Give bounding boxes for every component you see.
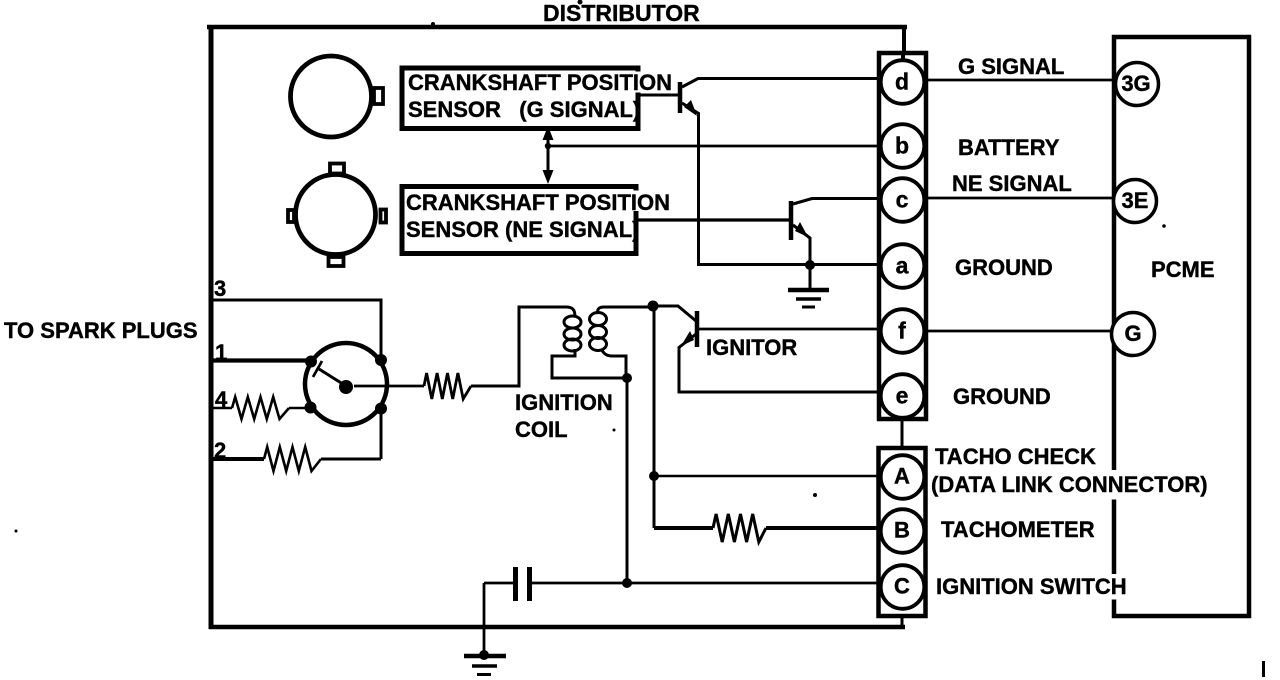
svg-text:NE SIGNAL: NE SIGNAL (952, 171, 1072, 196)
svg-text:SENSOR (NE SIGNAL): SENSOR (NE SIGNAL) (406, 217, 639, 242)
svg-text:CRANKSHAFT POSITION: CRANKSHAFT POSITION (406, 190, 670, 215)
svg-text:C: C (894, 574, 910, 599)
svg-text:d: d (895, 69, 909, 95)
svg-text:3G: 3G (1121, 71, 1150, 96)
svg-text:G SIGNAL: G SIGNAL (958, 54, 1064, 79)
svg-text:PCME: PCME (1151, 257, 1215, 282)
svg-text:IGNITOR: IGNITOR (706, 335, 797, 360)
svg-text:IGNITION SWITCH: IGNITION SWITCH (936, 574, 1127, 599)
svg-text:e: e (896, 383, 909, 409)
svg-text:IGNITION: IGNITION (515, 390, 613, 415)
svg-text:GROUND: GROUND (953, 384, 1051, 409)
svg-text:TACHO CHECK: TACHO CHECK (935, 444, 1096, 469)
svg-text:CRANKSHAFT POSITION: CRANKSHAFT POSITION (408, 70, 672, 95)
svg-text:f: f (898, 318, 906, 344)
svg-text:G: G (1124, 321, 1141, 346)
svg-text:COIL: COIL (515, 417, 568, 442)
svg-text:3E: 3E (1122, 188, 1149, 213)
svg-text:TACHOMETER: TACHOMETER (941, 517, 1095, 542)
svg-text:SENSOR (G SIGNAL): SENSOR (G SIGNAL) (408, 97, 640, 122)
svg-text:a: a (896, 253, 909, 279)
svg-text:TO SPARK PLUGS: TO SPARK PLUGS (4, 318, 198, 343)
svg-text:3: 3 (214, 276, 226, 301)
svg-text:c: c (896, 187, 909, 213)
svg-text:BATTERY: BATTERY (958, 135, 1060, 160)
svg-text:B: B (894, 518, 910, 543)
svg-text:DISTRIBUTOR: DISTRIBUTOR (543, 0, 700, 26)
svg-text:(DATA LINK CONNECTOR): (DATA LINK CONNECTOR) (931, 472, 1208, 497)
svg-text:b: b (895, 133, 909, 159)
svg-text:A: A (894, 464, 910, 489)
svg-text:GROUND: GROUND (955, 255, 1053, 280)
